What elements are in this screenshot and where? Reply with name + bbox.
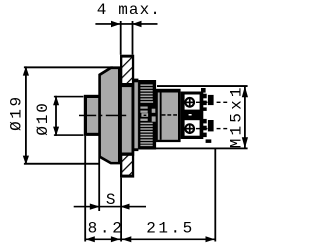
right arrowhead xyxy=(111,236,120,242)
svg-text:4 max.: 4 max. xyxy=(97,1,161,19)
right arrowhead xyxy=(206,236,215,242)
svg-text:21.5: 21.5 xyxy=(146,220,194,238)
washer and switch body xyxy=(156,89,181,142)
extension line rear end xyxy=(214,149,216,242)
dimension: Ø10 (lens diameter) xyxy=(34,96,83,136)
svg-text:M15x1: M15x1 xyxy=(227,84,245,148)
dimension line xyxy=(95,23,157,25)
dimension: Ø19 (bezel diameter) xyxy=(7,66,113,164)
dimension: M15x1 (thread size) xyxy=(156,84,248,149)
collar behind panel xyxy=(133,79,138,152)
down arrowhead xyxy=(53,127,59,136)
nut centerline notch xyxy=(144,115,147,116)
device centerline (dash-dot) xyxy=(79,115,126,117)
extension line panel left face xyxy=(120,21,122,55)
up arrowhead xyxy=(23,66,29,75)
dimension: 21.5 xyxy=(122,149,216,243)
extension line bezel front face xyxy=(98,158,100,212)
terminal 1 axis (dash-dot line) xyxy=(196,102,227,103)
extension line thread top xyxy=(157,85,248,87)
screw terminal 2 xyxy=(184,123,195,134)
extension line lens top xyxy=(54,96,84,98)
panel hole with threaded bushing passing through xyxy=(121,83,134,156)
extension line thread bottom xyxy=(156,148,248,150)
dimension: 4 max. (panel thickness) xyxy=(95,1,161,55)
svg-text:Ø10: Ø10 xyxy=(34,101,52,135)
extension line bezel bottom xyxy=(24,163,100,165)
dimension line xyxy=(86,239,215,241)
terminal clamp plates xyxy=(201,88,214,143)
left arrowhead xyxy=(111,21,120,28)
front bezel xyxy=(98,66,120,164)
dimension: S (bezel to panel gap) xyxy=(74,158,146,212)
svg-text:8.2: 8.2 xyxy=(88,220,125,238)
dimension: 8.2 xyxy=(84,136,214,242)
extension line bezel top xyxy=(24,66,113,68)
right arrowhead xyxy=(120,204,129,210)
left arrowhead xyxy=(86,236,95,242)
svg-text:Ø19: Ø19 xyxy=(7,94,25,131)
dimension line xyxy=(74,206,146,208)
extension line lens bottom xyxy=(54,134,84,136)
left arrowhead xyxy=(122,236,131,242)
shared extension line (panel front face) xyxy=(120,178,122,242)
up arrowhead xyxy=(53,96,59,105)
knurled mounting nut (striped) xyxy=(138,80,156,150)
right arrowhead xyxy=(132,21,141,28)
down arrowhead xyxy=(242,137,248,148)
hidden line (dashed) through body xyxy=(162,114,177,116)
terminal 2 axis (dash-dot line) xyxy=(196,128,227,129)
screw terminal 1 xyxy=(184,97,195,108)
up arrowhead xyxy=(242,86,248,97)
left arrowhead xyxy=(90,204,100,210)
dimension line xyxy=(244,86,246,148)
extension line lens front face xyxy=(84,136,86,242)
dimension line xyxy=(55,96,57,136)
mounting panel (section, hatched) xyxy=(120,55,134,178)
dimension line xyxy=(25,66,27,164)
extension line panel right face xyxy=(132,21,134,55)
lens / actuator button xyxy=(84,95,101,136)
down arrowhead xyxy=(23,156,29,165)
terminal housing xyxy=(181,92,204,140)
